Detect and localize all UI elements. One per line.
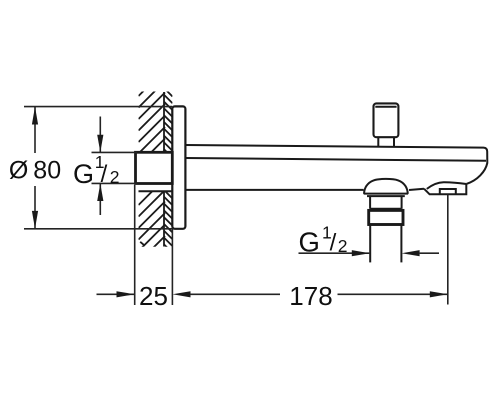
escutcheon plate	[172, 106, 185, 228]
shower pipe collar left	[369, 196, 371, 209]
ext line wall front	[171, 229, 173, 305]
union nipple G1/2	[136, 152, 173, 183]
svg-text:178: 178	[289, 281, 332, 311]
arrow right at outlet ext	[430, 291, 448, 297]
arrow shaft below nipple	[99, 184, 101, 215]
lower pipe left	[369, 225, 371, 263]
wall layer separator line upper	[163, 92, 165, 152]
spout underside left segment	[185, 189, 363, 191]
arrow up at plate top	[32, 107, 38, 125]
dim line 25 left tail	[97, 293, 135, 295]
knob neck right	[393, 137, 395, 147]
dim line 178 left segment	[190, 293, 280, 295]
dim arrow tail G12 bottom right	[420, 252, 439, 254]
thread band	[369, 210, 403, 224]
dim arrow line G12 bottom left	[299, 252, 370, 254]
knob neck left	[377, 137, 379, 147]
wall fine hatch lower block	[164, 190, 173, 253]
arrow down at plate bottom	[32, 211, 38, 229]
spout inner top line	[185, 158, 486, 161]
arrow up at nipple bottom	[97, 184, 103, 202]
arrow left at pipe right	[402, 250, 420, 256]
svg-text:Ø 80: Ø 80	[9, 156, 61, 184]
arrow right at wall back	[117, 291, 135, 297]
spout top edge	[185, 145, 487, 184]
dim line diameter 80 upper shaft	[34, 107, 36, 153]
stray cut tick	[140, 242, 144, 246]
shower pipe collar right	[401, 196, 403, 209]
ext line outlet center	[447, 195, 449, 305]
dim ext line nipple top	[92, 151, 138, 153]
wall fine hatch upper block	[164, 88, 173, 158]
outlet seam	[427, 182, 467, 189]
knob top inner line	[375, 106, 396, 108]
arrow down at nipple top	[97, 135, 103, 153]
dim ext line top (plate top)	[24, 106, 172, 108]
ext line wall back	[134, 185, 136, 305]
aerator notch	[440, 189, 456, 194]
wall edge line below union	[139, 190, 173, 192]
dim line diameter 80 lower shaft	[34, 186, 36, 229]
dome flange line	[367, 195, 405, 197]
svg-text:2: 2	[110, 167, 120, 187]
lower pipe right	[400, 225, 402, 263]
diverter dome	[364, 179, 408, 194]
outlet housing	[424, 184, 466, 194]
collar bottom line	[370, 208, 402, 210]
arrow shaft above nipple	[99, 117, 101, 153]
dim ext line nipple bottom	[92, 182, 138, 184]
diverter knob body	[374, 103, 399, 137]
spout underside right segment	[409, 189, 424, 190]
wall coarse hatch upper block	[139, 70, 166, 177]
wall coarse hatch lower block	[139, 179, 166, 275]
arrow right at pipe left	[352, 250, 370, 256]
dim ext line bottom (plate bottom)	[24, 228, 172, 230]
svg-text:/: /	[101, 161, 108, 188]
dim line 178 right segment	[338, 293, 448, 295]
svg-text:G: G	[73, 159, 94, 189]
dome base line	[364, 193, 408, 195]
svg-text:25: 25	[139, 281, 168, 311]
arrow left at wall front	[173, 291, 191, 297]
wall layer separator line lower	[163, 192, 165, 247]
